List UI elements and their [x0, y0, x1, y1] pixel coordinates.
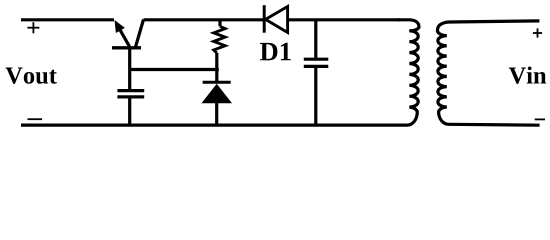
- wire base lead down from transistor: [128, 49, 131, 89]
- node Vout + terminal sign: [27, 22, 39, 33]
- node Vin + terminal sign: [533, 28, 542, 37]
- node Vin - terminal sign: [535, 118, 545, 120]
- wire bottom rail: [21, 123, 400, 126]
- wire top rail from collector to D1 cathode: [144, 18, 265, 21]
- capacitor C1 (left, base to bottom rail): [117, 91, 144, 126]
- wire top-left rail from Vout+ to transistor emitter: [21, 18, 114, 21]
- diode D1 (outline, pointing left): [264, 5, 287, 33]
- inductor L2 secondary winding (right coil with corners): [437, 21, 539, 125]
- transistor Q1: [112, 20, 144, 48]
- capacitor C2 (right, top rail to bottom rail): [304, 20, 329, 125]
- diode D1 value label: [260, 43, 291, 61]
- wire top rail from D1 anode to corner of winding: [288, 18, 400, 21]
- node Vout label: [5, 67, 56, 83]
- resistor R1 (top rail to catch diode): [214, 20, 225, 82]
- node Vout - terminal sign: [28, 118, 43, 120]
- inductor L1 primary winding (left coil with corners): [398, 20, 419, 125]
- node Vin label: [509, 67, 546, 84]
- wire base node horizontal to resistor column: [130, 68, 219, 71]
- diode D2 catch diode (filled, pointing up): [202, 82, 233, 125]
